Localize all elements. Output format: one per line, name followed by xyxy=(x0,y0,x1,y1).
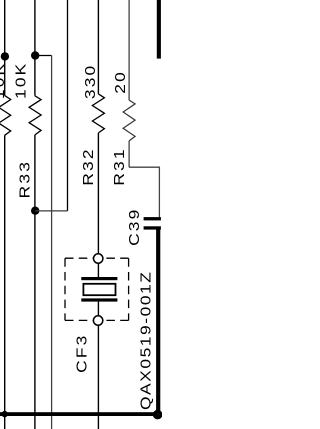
thick bus top right xyxy=(157,0,161,59)
resistor R32 xyxy=(92,94,104,133)
crystal top terminal circle xyxy=(94,254,103,263)
thick bus right (C39 to bottom) xyxy=(156,229,160,416)
svg-text:R33: R33 xyxy=(18,160,33,198)
svg-text:10K: 10K xyxy=(14,62,29,99)
svg-text:R32: R32 xyxy=(81,147,96,185)
crystal CF3 bottom electrode xyxy=(81,298,117,301)
capacitor C39 bottom plate xyxy=(144,226,161,229)
crystal CF3 top electrode xyxy=(81,277,117,280)
wire net5 vertical (R31 column) xyxy=(128,0,130,167)
wire crystal bottom to bus xyxy=(97,326,99,429)
svg-text:QAX0519-001Z: QAX0519-001Z xyxy=(139,271,154,411)
wire net3 vertical xyxy=(67,0,69,211)
wire J3 horizontal to net3 xyxy=(35,210,67,212)
resistor R31 xyxy=(123,100,135,141)
node dot bottom-left xyxy=(1,411,7,417)
svg-text:R31: R31 xyxy=(112,147,127,185)
crystal bottom terminal circle xyxy=(93,316,102,325)
wire circle to crystal top electrode xyxy=(97,263,99,277)
svg-text:10K: 10K xyxy=(0,62,8,99)
svg-text:330: 330 xyxy=(83,64,98,99)
resistor R33 xyxy=(29,96,41,135)
wire net4 vertical (R32 / crystal column) xyxy=(97,0,99,254)
svg-text:20: 20 xyxy=(113,70,128,94)
wire net5 elbow to C39 xyxy=(129,167,159,217)
node dot bottom-right corner xyxy=(153,410,163,420)
crystal CF3 body rect xyxy=(83,284,115,295)
crystal CF3 dashed box xyxy=(65,257,129,259)
thick bus bottom horizontal xyxy=(0,412,161,416)
resistor R-left (clipped at edge) xyxy=(0,96,11,136)
node dot J3 (R33 bottom junction) xyxy=(31,207,39,215)
node dot J2 top xyxy=(31,51,39,59)
capacitor C39 top plate xyxy=(144,217,161,220)
wire gray vertical feedthrough xyxy=(51,56,53,429)
wire net1 vertical left xyxy=(4,0,6,429)
wire crystal bottom electrode to circle xyxy=(97,302,99,316)
svg-text:C39: C39 xyxy=(127,208,142,246)
svg-text:CF3: CF3 xyxy=(75,334,90,373)
wire net2 vertical (R33 column) xyxy=(34,0,36,429)
wire from J2 right xyxy=(35,55,51,57)
node dot J1 xyxy=(1,52,9,60)
